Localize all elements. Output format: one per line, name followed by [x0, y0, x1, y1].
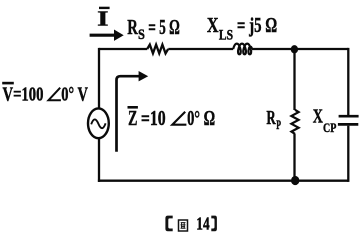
inductor XLS — [233, 44, 252, 55]
current arrow — [90, 34, 115, 37]
svg-text:P: P — [276, 117, 281, 132]
resistor RP — [291, 110, 298, 134]
wire top left segment — [99, 48, 147, 50]
wire top middle segment — [168, 48, 233, 50]
wire top right segment — [252, 48, 348, 50]
svg-text:= 5 Ω: = 5 Ω — [148, 15, 180, 39]
svg-text:= j5 Ω: = j5 Ω — [237, 13, 277, 37]
current label I overbar — [99, 7, 110, 9]
angle symbol in V label — [49, 88, 61, 101]
wire middle branch lower — [293, 134, 295, 182]
source sine — [91, 119, 105, 128]
svg-text:X: X — [313, 106, 324, 128]
svg-text:V=100: V=100 — [3, 84, 44, 106]
resistor RS — [147, 45, 168, 54]
svg-text:LS: LS — [219, 28, 233, 44]
Z arrow — [117, 76, 140, 152]
svg-text:I: I — [97, 6, 108, 30]
svg-text:X: X — [207, 13, 219, 37]
caption CJK tu character — [179, 220, 188, 231]
capacitor XCP top plate — [339, 115, 359, 118]
svg-text:Z: Z — [128, 106, 137, 130]
wire left lower — [98, 138, 100, 182]
Z overbar — [128, 106, 138, 109]
svg-text:0° Ω: 0° Ω — [187, 106, 215, 130]
svg-text:=10: =10 — [141, 106, 166, 130]
angle symbol in Z label — [172, 112, 186, 125]
capacitor XCP bottom plate — [338, 123, 358, 126]
caption right lenticular bracket — [211, 216, 217, 232]
wire right upper — [347, 48, 349, 115]
svg-text:R: R — [127, 15, 138, 39]
junction dot bottom — [291, 176, 299, 185]
svg-text:0° V: 0° V — [61, 84, 88, 106]
wire left upper — [98, 48, 100, 109]
svg-text:14: 14 — [196, 213, 209, 233]
wire bottom — [98, 180, 348, 182]
V overbar — [2, 82, 14, 85]
svg-text:S: S — [138, 27, 145, 43]
svg-text:R: R — [266, 108, 276, 129]
caption left lenticular bracket — [165, 216, 172, 232]
wire right lower — [347, 126, 349, 182]
junction dot top — [291, 45, 298, 53]
wire middle branch upper — [293, 48, 295, 110]
svg-text:CP: CP — [323, 120, 336, 135]
source V1 — [88, 108, 109, 138]
